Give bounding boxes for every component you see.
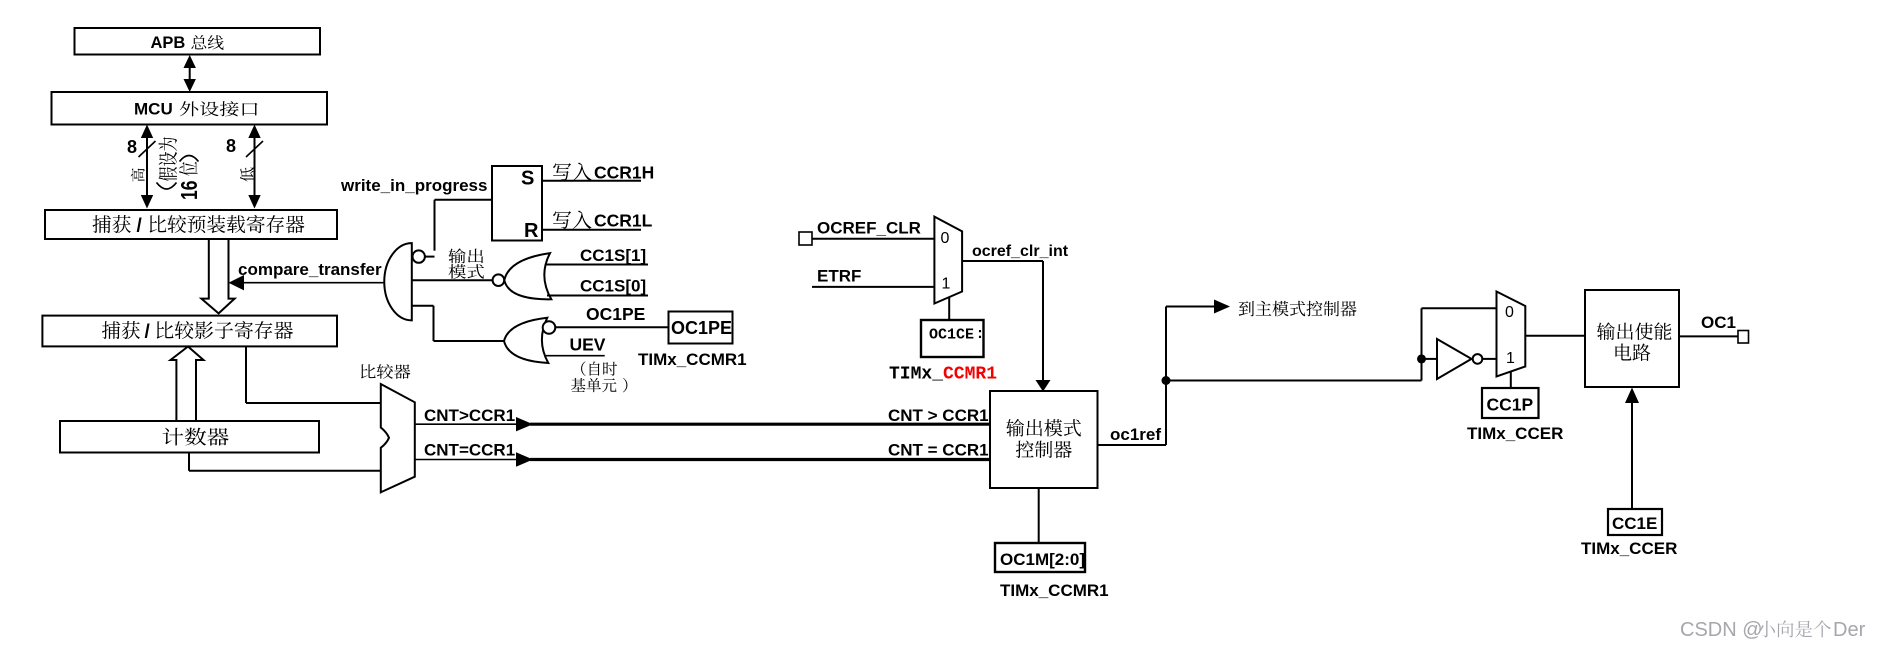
svg-text:TIMx_CCMR1: TIMx_CCMR1 — [1000, 581, 1109, 600]
wire CNT>CCR1 — [415, 423, 517, 425]
wire inverter to mux input 1 — [1482, 358, 1496, 360]
label （ of （假设为 rotated — [157, 183, 177, 190]
wire high byte double arrow — [146, 131, 148, 202]
svg-text:TIMx_: TIMx_ — [889, 365, 943, 385]
arrowhead CC1E — [1625, 388, 1639, 404]
register bit CC1P box — [1482, 388, 1539, 418]
wire junction to inverter — [1422, 358, 1438, 360]
wire oc1ref to output stage — [1166, 380, 1422, 382]
wire ocref_clr_int vertical — [1042, 261, 1044, 381]
svg-text:OCREF_CLR: OCREF_CLR — [817, 219, 921, 238]
svg-text:8: 8 — [226, 136, 236, 156]
register bits OC1M box — [995, 543, 1085, 572]
hollow arrow counter to shadow — [171, 347, 204, 422]
wire ocref_clr_int — [962, 260, 1043, 262]
register bit OC1PE box — [669, 312, 733, 344]
and gate U1 (compare transfer enable) — [384, 243, 412, 320]
wire CC1S[0] — [547, 295, 648, 297]
svg-text:TIMx_CCMR1: TIMx_CCMR1 — [638, 350, 747, 369]
label 基单元） — [571, 378, 586, 392]
wire M1 select — [948, 298, 950, 321]
svg-text:CNT = CCR1: CNT = CCR1 — [888, 441, 989, 460]
wire low byte double arrow — [254, 131, 256, 202]
wire ETRF — [812, 286, 934, 288]
arrowhead to master mode controller — [1214, 300, 1230, 314]
wire U1 top input to write_in_progress — [425, 256, 435, 258]
sr latch U2 — [492, 166, 542, 241]
wire U1 middle input — [412, 279, 493, 281]
wire compare_transfer — [243, 282, 384, 284]
block capture/compare preload register — [45, 210, 337, 239]
label 写入 CCR1L — [553, 211, 571, 229]
wire oc1ref from controller — [1098, 444, 1167, 446]
svg-text:CNT > CCR1: CNT > CCR1 — [888, 406, 989, 425]
wire M2 select — [1510, 372, 1512, 389]
arrowhead CNT=CCR1 — [516, 452, 533, 466]
wire CNT=CCR1 — [415, 459, 517, 461]
svg-text:S: S — [521, 168, 534, 190]
hollow arrow preload to shadow — [201, 240, 234, 313]
wire M2 output — [1525, 335, 1585, 337]
label 位 rotated — [179, 162, 198, 176]
svg-text:ocref_clr_int: ocref_clr_int — [972, 243, 1069, 260]
wire CC1E to enable circuit — [1631, 398, 1633, 509]
wire oc1ref vertical — [1165, 307, 1167, 446]
wire OC1PE — [555, 326, 668, 328]
label 电路 — [1615, 344, 1631, 361]
svg-text:16: 16 — [178, 181, 203, 200]
label 高 — [131, 168, 145, 181]
block MCU peripheral interface — [52, 92, 328, 125]
block output enable circuit — [1585, 290, 1679, 387]
wire to master mode controller — [1166, 306, 1218, 308]
svg-text:CC1E: CC1E — [1612, 514, 1657, 533]
mux M2 polarity select — [1497, 292, 1526, 377]
svg-text:compare_transfer: compare_transfer — [238, 260, 382, 279]
svg-text:oc1ref: oc1ref — [1110, 425, 1161, 444]
label 输出模式 line1 — [1006, 419, 1024, 437]
label 假设为 rotated — [159, 137, 178, 181]
label 捕获/比较影子寄存器 — [102, 321, 120, 339]
wire UEV — [546, 355, 605, 357]
svg-text:MCU: MCU — [134, 100, 173, 119]
comparator — [381, 384, 415, 492]
bubble U4 inverted input OC1PE — [543, 321, 556, 334]
wire CNT=CCR1 thick — [530, 458, 990, 461]
svg-text:TIMx_CCER: TIMx_CCER — [1467, 424, 1563, 443]
svg-text:0: 0 — [941, 230, 950, 247]
block counter — [60, 421, 319, 453]
label ） of 16位） rotated — [180, 156, 199, 162]
svg-text:CNT=CCR1: CNT=CCR1 — [424, 441, 515, 460]
svg-text:CCMR1: CCMR1 — [943, 365, 997, 385]
label 控制器 line2 — [1016, 441, 1034, 458]
register bit CC1E box — [1608, 509, 1662, 535]
slash high — [139, 141, 156, 157]
pad OCREF_CLR — [799, 232, 812, 245]
svg-text:R: R — [524, 220, 539, 242]
wire up to mux input 0 — [1421, 308, 1423, 380]
label 捕获/比较预装载寄存器 — [92, 215, 111, 233]
svg-text:TIMx_CCER: TIMx_CCER — [1581, 539, 1677, 558]
label 写入 CCR1H — [553, 163, 571, 181]
arrowhead compare_transfer — [229, 275, 245, 290]
wire U1 bottom input — [412, 305, 434, 307]
block APB bus — [75, 28, 321, 55]
wire write_in_progress — [435, 199, 493, 201]
svg-text:0: 0 — [1505, 304, 1514, 321]
label 输出使能 — [1597, 322, 1615, 340]
svg-text:CC1P: CC1P — [1487, 395, 1534, 415]
arrowhead into output mode controller — [1036, 380, 1051, 392]
svg-text:1: 1 — [1506, 350, 1515, 367]
svg-text:OC1M[2:0]: OC1M[2:0] — [1000, 550, 1085, 569]
svg-text:OC1: OC1 — [1701, 313, 1736, 332]
wire OCREF_CLR — [812, 238, 934, 240]
svg-text:CC1S[1]: CC1S[1] — [580, 246, 646, 265]
bubble U5 — [1473, 354, 1483, 364]
svg-text:1: 1 — [942, 276, 951, 293]
svg-text:OC1CE: OC1CE — [929, 327, 974, 344]
svg-text:APB: APB — [151, 34, 186, 52]
inverter U5 — [1437, 339, 1472, 379]
wire to OC1M — [1038, 488, 1040, 543]
wire OC1 output — [1679, 335, 1738, 337]
junction inverter input — [1417, 354, 1426, 363]
label 比较器 — [361, 364, 376, 378]
label 输出模式 — [448, 248, 465, 263]
bubble U1 inverted input — [413, 250, 425, 262]
or gate U4 (OC1PE/UEV) — [504, 318, 548, 363]
wire counter to comparator — [188, 453, 190, 471]
svg-text:write_in_progress: write_in_progress — [340, 176, 487, 195]
label 低 — [240, 168, 254, 182]
pad OC1 — [1738, 331, 1749, 344]
junction oc1ref — [1162, 376, 1171, 385]
block capture/compare shadow register — [42, 316, 337, 347]
svg-text:OC1PE: OC1PE — [671, 318, 732, 338]
svg-text:/: / — [145, 322, 151, 343]
wire write CCR1L — [542, 229, 641, 231]
svg-text::: : — [976, 326, 985, 343]
svg-text:UEV: UEV — [570, 335, 606, 355]
svg-text:Der: Der — [1833, 619, 1866, 641]
block output mode controller — [990, 391, 1098, 488]
wire shadow to comparator — [245, 346, 247, 404]
svg-text:ETRF: ETRF — [817, 267, 861, 286]
wire CNT>CCR1 thick — [530, 423, 990, 426]
wire APB-MCU double arrow — [189, 62, 191, 86]
register bit OC1CE box — [921, 320, 984, 357]
nor gate U3 (CC1S decode) — [504, 253, 551, 299]
label 计数器 — [163, 428, 184, 446]
wire write CCR1H — [542, 180, 641, 182]
svg-text:CC1S[0]: CC1S[0] — [580, 277, 646, 296]
svg-text:CSDN @: CSDN @ — [1680, 619, 1763, 641]
label 到主模式控制器 — [1239, 301, 1254, 316]
svg-text:CCR1H: CCR1H — [594, 163, 654, 183]
svg-text:CCR1L: CCR1L — [594, 211, 653, 231]
label 16 rotated — [178, 181, 203, 200]
wire CC1S[1] — [545, 264, 648, 266]
arrowhead CNT>CCR1 — [516, 417, 533, 431]
svg-text:8: 8 — [127, 137, 137, 157]
svg-text:CNT>CCR1: CNT>CCR1 — [424, 406, 515, 425]
svg-text:OC1PE: OC1PE — [586, 304, 645, 324]
svg-text:/: / — [137, 216, 143, 237]
bubble U3 output — [493, 274, 505, 286]
slash low — [246, 141, 263, 157]
label （自时 — [581, 361, 585, 376]
mux M1 ocref clear select — [934, 217, 962, 304]
